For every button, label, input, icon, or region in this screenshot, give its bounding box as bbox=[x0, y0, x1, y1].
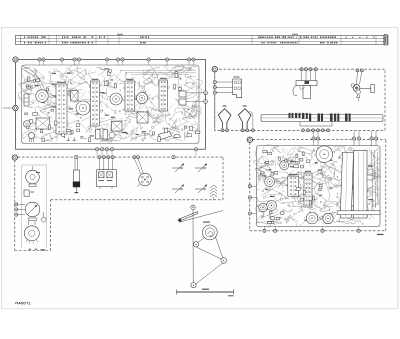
resistor cluster R6 bbox=[173, 72, 181, 91]
coil L2 (square w/ cross) bbox=[137, 112, 148, 123]
ferrite aerial coil bbox=[210, 185, 217, 200]
IF transformer S1 bbox=[56, 82, 67, 134]
chassis wiring compartment (dashed L-shape) bbox=[15, 157, 223, 250]
idler pulley right bbox=[221, 258, 227, 264]
wire bundle at PCB corner bbox=[22, 66, 158, 97]
transistor TS6 bbox=[267, 201, 277, 211]
plug X1 (diamond) bbox=[218, 106, 231, 129]
lamp wiring bracket bbox=[300, 122, 332, 127]
terminal A (corner) bbox=[13, 57, 18, 62]
tuner/IF PCB unit outline bbox=[16, 60, 206, 150]
power transistor TS10 bbox=[306, 213, 317, 224]
capacitor C4 bbox=[96, 130, 108, 140]
coil L3 bbox=[112, 122, 123, 132]
output transformer T3 bbox=[340, 152, 353, 218]
wiring frame left column bbox=[22, 165, 47, 248]
dial cord runs bbox=[193, 210, 223, 285]
board code label bbox=[377, 234, 384, 235]
transistor TS7 bbox=[259, 203, 268, 212]
dial lamp bracket terminals bbox=[300, 68, 317, 81]
tuning gang terminals bbox=[356, 69, 363, 84]
switch block SK2 bbox=[97, 170, 117, 189]
lamp clamps on rail bbox=[289, 113, 351, 121]
ground lugs bbox=[28, 248, 45, 250]
dial drive compartment (dashed) bbox=[215, 69, 385, 130]
loudspeaker LS1 bbox=[24, 221, 39, 244]
resistor cluster R3 bbox=[153, 126, 200, 141]
copper traces on tuner PCB bbox=[18, 64, 203, 143]
aerial switch contact 1 bbox=[172, 155, 184, 172]
amplifier PCB board bbox=[257, 146, 381, 227]
pointer rod bbox=[178, 212, 198, 223]
IF transformer S4 bbox=[159, 78, 168, 111]
tweeter LS2 bbox=[26, 166, 40, 187]
coil L4 bbox=[36, 118, 50, 129]
transistor TS4 bbox=[137, 93, 148, 104]
trimmer C2 bbox=[179, 99, 204, 105]
volume control R30 bbox=[25, 202, 40, 220]
sheet code MA6013 bbox=[16, 302, 30, 305]
power transistor TS11 bbox=[323, 213, 333, 223]
bottom strip parts bbox=[29, 131, 181, 142]
resistor cluster R2 bbox=[62, 124, 91, 142]
terminals on right edge of tuner PCB bbox=[204, 91, 208, 104]
capacitor C5 bbox=[109, 132, 115, 138]
resistor cluster R10 bbox=[261, 150, 287, 175]
resistor cluster R1 bbox=[25, 109, 57, 142]
resistor cluster R5 bbox=[105, 70, 117, 88]
terminal B (corner) bbox=[212, 67, 217, 129]
amplifier PCB compartment (dashed) bbox=[250, 140, 386, 231]
dial scale bbox=[16, 34, 389, 45]
connector strip bbox=[304, 171, 312, 207]
idler pulley left bbox=[193, 242, 198, 247]
terminal C (corner) bbox=[12, 155, 17, 160]
transistor TS2 bbox=[76, 101, 90, 115]
resistor cluster R4 bbox=[26, 77, 48, 91]
plug X2 (diamond) bbox=[239, 106, 253, 129]
tuning drum bbox=[202, 222, 217, 240]
switch block terminals bbox=[98, 156, 114, 170]
copper traces on amp PCB bbox=[253, 145, 381, 227]
electrolytic capacitor C30 terminal bbox=[75, 155, 78, 158]
resistor cluster R12 bbox=[268, 211, 284, 223]
idler pulley bottom bbox=[191, 283, 196, 288]
trimmer C1 bbox=[179, 91, 204, 97]
terminals on amp compartment edges bbox=[248, 131, 377, 232]
dial glass rail bbox=[261, 115, 383, 122]
terminal on left edge of tuner PCB bbox=[3, 105, 18, 110]
dial cord to gang bbox=[179, 211, 223, 223]
connector block SK1 bbox=[233, 77, 242, 98]
aerial switch contact 4 bbox=[195, 185, 207, 194]
resistor cluster R13 bbox=[296, 185, 322, 205]
terminal D (corner) bbox=[247, 137, 252, 142]
transistor TS3 bbox=[110, 93, 122, 105]
terminals on bottom edge of tuner PCB bbox=[95, 148, 197, 156]
aerial switch contact 3 bbox=[172, 185, 184, 194]
lamp terminals row bbox=[302, 129, 330, 132]
dial cord top pulley bbox=[191, 205, 195, 209]
transistor TS8 bbox=[280, 161, 289, 170]
electrolytic block C50 bbox=[354, 150, 379, 218]
driver transformer T2 bbox=[316, 146, 333, 163]
electrolytic C3 bbox=[24, 121, 31, 128]
long traces top right bbox=[120, 71, 196, 75]
IF transformer S3 bbox=[125, 79, 135, 111]
dial lamp bracket bbox=[293, 81, 317, 99]
electrolytic capacitor C30 bbox=[73, 159, 80, 193]
side-view coil left edge bbox=[24, 94, 29, 106]
transistor TS1 bbox=[36, 90, 48, 102]
output transformer T1 bbox=[24, 190, 34, 196]
terminals on top edge of tuner PCB bbox=[38, 58, 195, 66]
fuse holder bbox=[337, 211, 380, 215]
tuning gang capacitor bbox=[351, 84, 374, 101]
IF transformer S2 bbox=[91, 79, 100, 126]
capacitor C40 bbox=[41, 212, 46, 222]
transistor TS5 bbox=[265, 177, 275, 187]
plug terminals bbox=[221, 129, 255, 132]
left edge terminals bbox=[15, 203, 25, 216]
dimension line bbox=[177, 289, 234, 297]
IF transformer S5 bbox=[288, 174, 299, 196]
resistor cluster R11 bbox=[294, 152, 310, 168]
coil L1 (square w/ cross) bbox=[71, 91, 79, 102]
DIN socket BU1 bbox=[138, 173, 152, 186]
DIN socket terminals bbox=[133, 156, 144, 174]
aerial switch contact 2 bbox=[195, 164, 207, 173]
connector terminals stack bbox=[213, 80, 233, 94]
